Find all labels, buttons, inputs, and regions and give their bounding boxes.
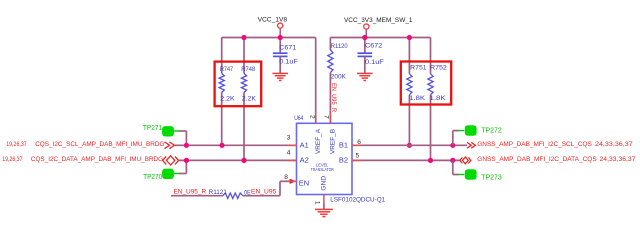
svg-text:0.1uF: 0.1uF [365, 59, 384, 66]
svg-text:R752: R752 [430, 65, 447, 72]
svg-text:200K: 200K [331, 74, 347, 81]
svg-text:GNSS_AMP_DAB_MFI_I2C_DATA_CQS: GNSS_AMP_DAB_MFI_I2C_DATA_CQS [477, 156, 597, 163]
svg-text:VCC_3V3_MEM_SW_1: VCC_3V3_MEM_SW_1 [344, 17, 413, 24]
svg-text:1.8K: 1.8K [409, 95, 426, 102]
svg-text:19,26,37: 19,26,37 [6, 141, 27, 148]
svg-text:A1: A1 [300, 141, 309, 150]
svg-text:C672: C672 [365, 42, 383, 49]
svg-text:1: 1 [314, 201, 321, 205]
svg-text:TP272: TP272 [481, 127, 502, 134]
svg-text:B1: B1 [339, 141, 348, 150]
svg-text:24,33,36,37: 24,33,36,37 [600, 156, 636, 163]
svg-text:VREF_B: VREF_B [329, 128, 336, 154]
svg-text:EN_U95_R: EN_U95_R [330, 83, 337, 112]
svg-text:R1120: R1120 [331, 43, 348, 50]
svg-text:3: 3 [287, 134, 291, 141]
svg-text:EN: EN [299, 179, 309, 188]
svg-text:A2: A2 [300, 155, 309, 164]
svg-text:6: 6 [357, 139, 361, 146]
svg-text:CQS_I2C_DATA_AMP_DAB_MFI_IMU_B: CQS_I2C_DATA_AMP_DAB_MFI_IMU_BRDG [31, 156, 163, 163]
svg-text:7: 7 [323, 115, 330, 119]
svg-text:0.1uF: 0.1uF [279, 58, 298, 65]
svg-text:R1121: R1121 [209, 189, 228, 196]
svg-text:TP270: TP270 [143, 174, 162, 181]
svg-text:TP271: TP271 [143, 125, 162, 132]
svg-text:TP273: TP273 [481, 174, 502, 181]
svg-text:U64: U64 [294, 115, 303, 122]
svg-text:R748: R748 [241, 66, 255, 73]
svg-text:GNSS_AMP_DAB_MFI_I2C_SCL_CQS: GNSS_AMP_DAB_MFI_I2C_SCL_CQS [477, 141, 592, 148]
svg-text:2: 2 [309, 115, 316, 119]
svg-text:4: 4 [287, 150, 291, 157]
svg-text:EN_U95: EN_U95 [251, 189, 277, 196]
svg-text:1.8K: 1.8K [430, 95, 447, 102]
svg-text:R747: R747 [220, 66, 233, 73]
svg-text:C671: C671 [279, 45, 296, 52]
svg-text:B2: B2 [339, 155, 348, 164]
svg-text:19,26,37: 19,26,37 [2, 156, 23, 163]
svg-text:R751: R751 [410, 65, 427, 72]
svg-text:5: 5 [356, 153, 360, 160]
svg-text:8: 8 [284, 174, 288, 181]
svg-text:CQS_I2C_SCL_AMP_DAB_MFI_IMU_BR: CQS_I2C_SCL_AMP_DAB_MFI_IMU_BRDG [35, 141, 164, 148]
svg-text:GND: GND [320, 176, 327, 191]
svg-text:2.2K: 2.2K [242, 95, 257, 102]
svg-text:24,33,36,37: 24,33,36,37 [595, 141, 633, 148]
svg-text:2.2K: 2.2K [220, 95, 235, 102]
svg-text:TRANSLATOR: TRANSLATOR [311, 167, 335, 172]
svg-text:VREF_A: VREF_A [315, 128, 322, 154]
svg-text:VCC_1V8: VCC_1V8 [258, 16, 288, 23]
svg-text:EN_U95_R: EN_U95_R [174, 188, 207, 195]
svg-text:LSF0102QDCU-Q1: LSF0102QDCU-Q1 [330, 197, 385, 204]
